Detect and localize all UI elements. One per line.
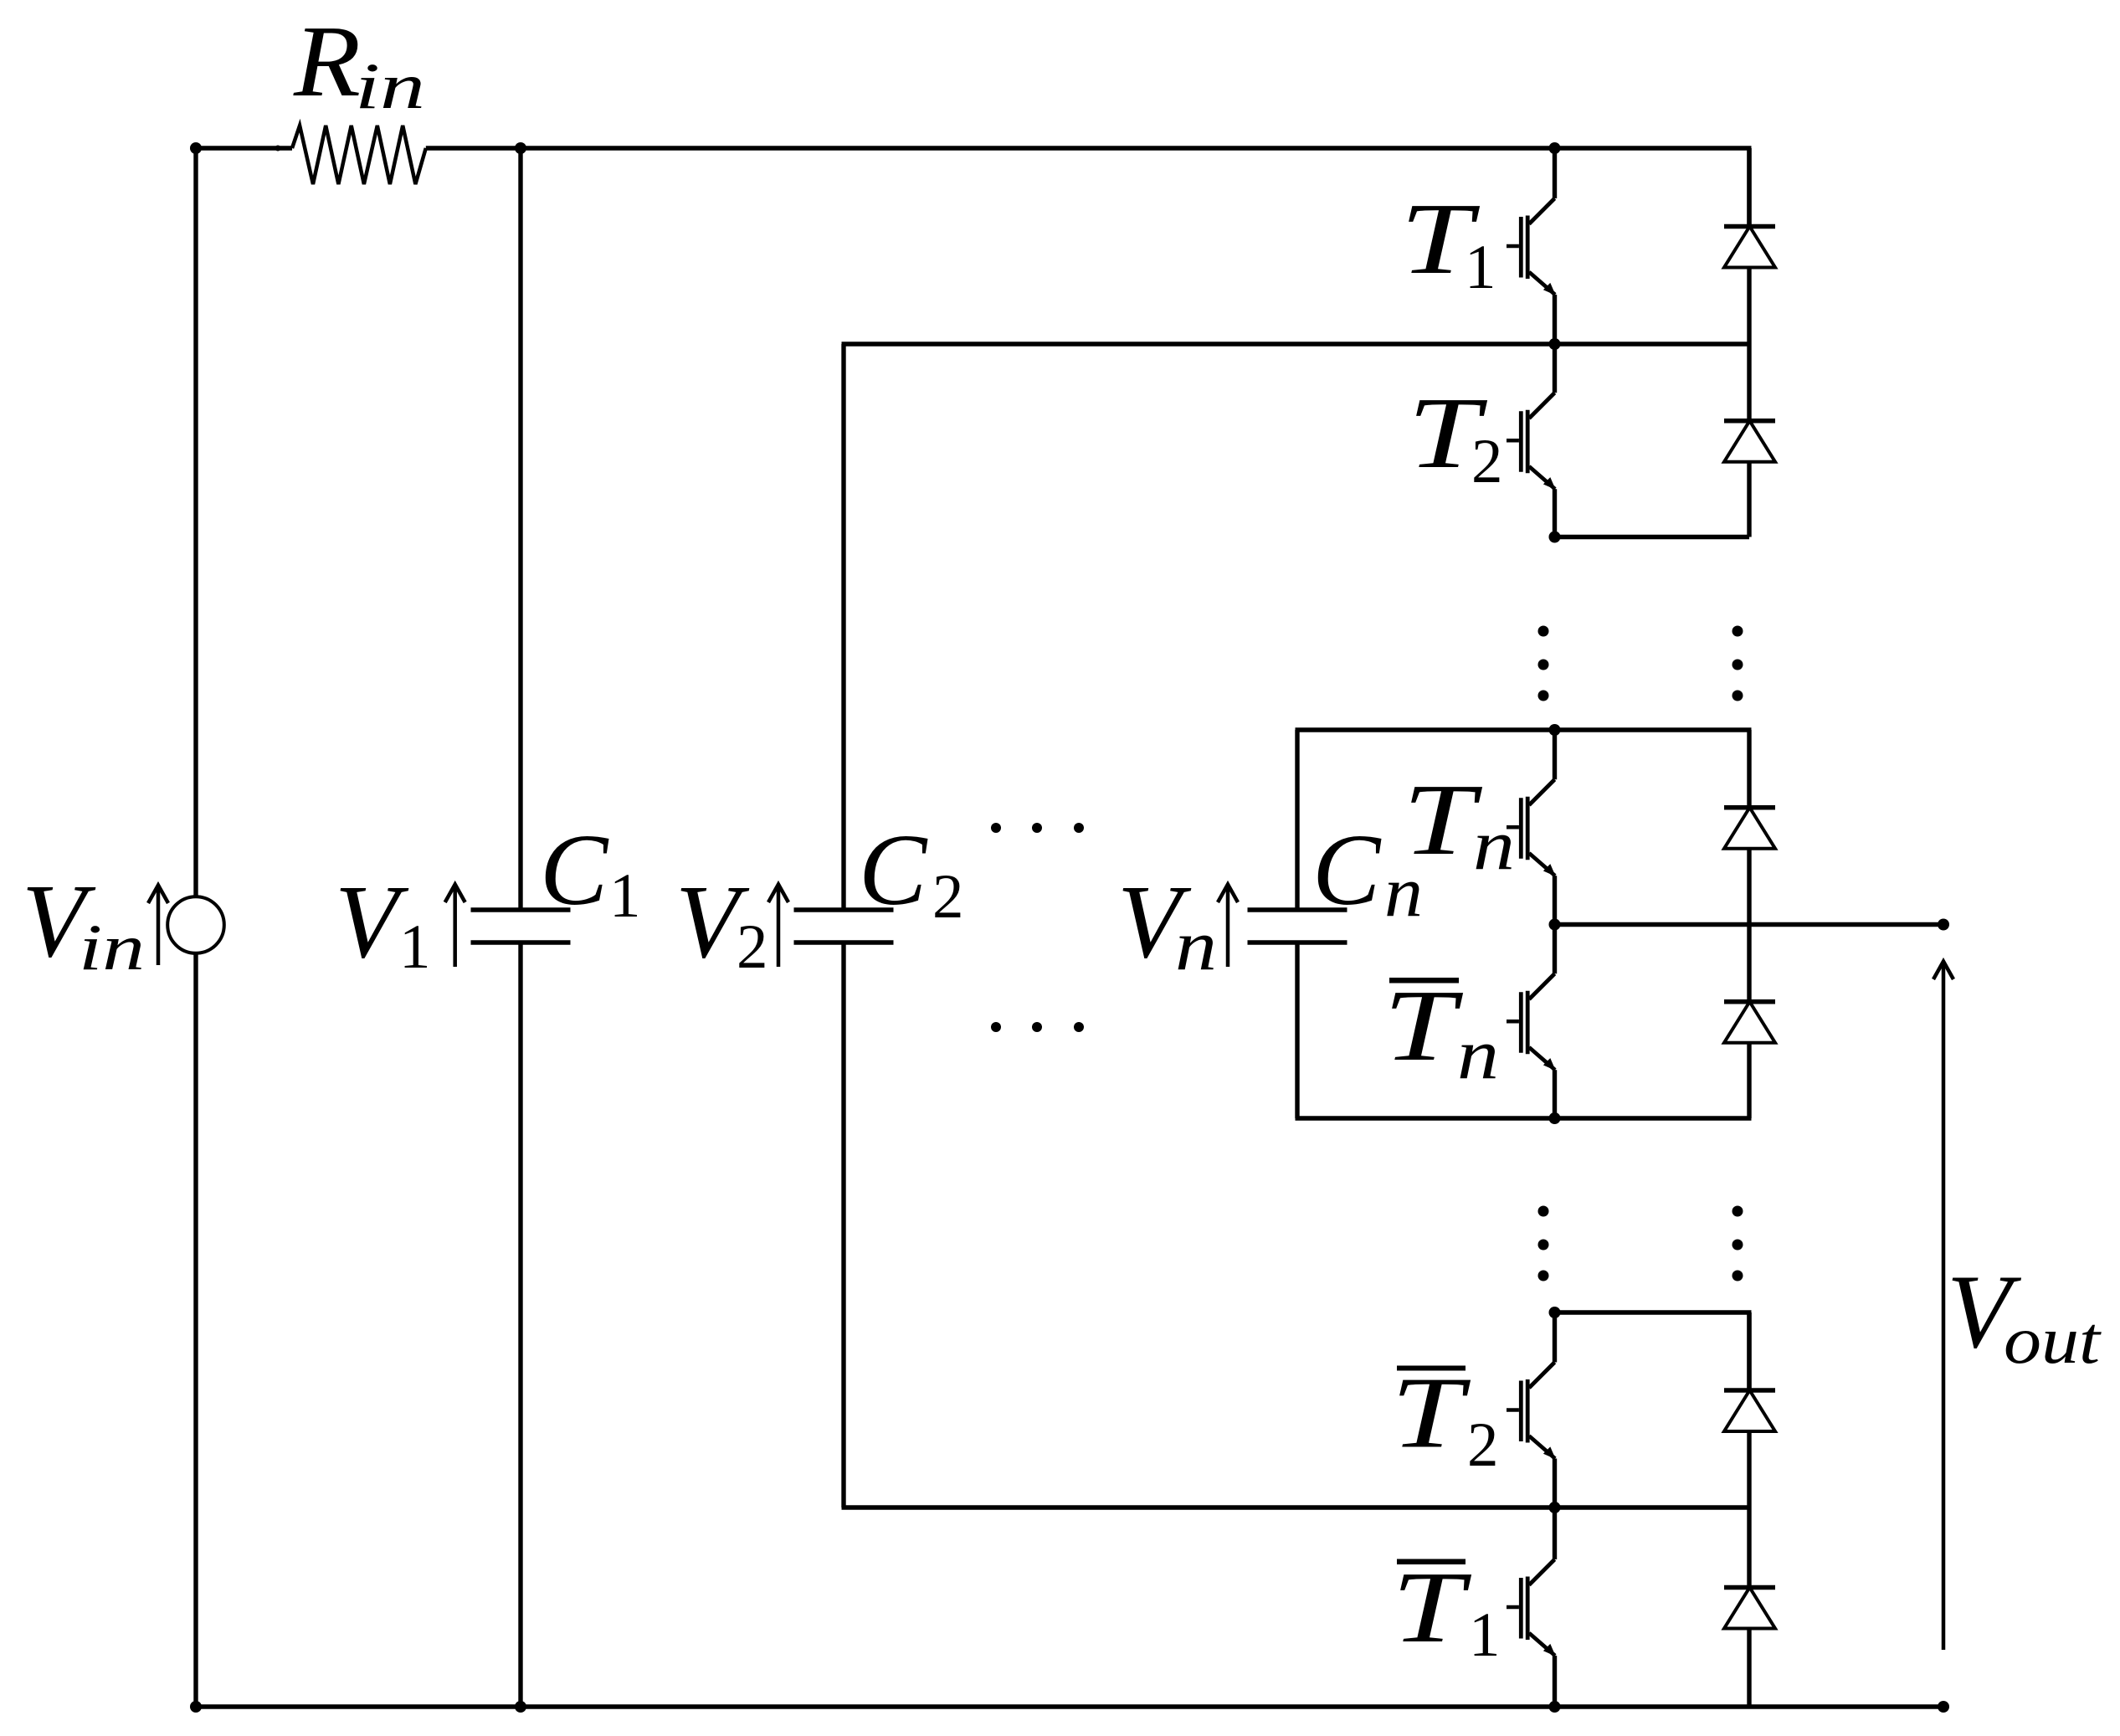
ellipsis cdots upper (C2 to Cn): [991, 823, 1084, 833]
wire Cn cell top rail and Cn top lead: [1296, 730, 1752, 910]
diode D1: [1724, 148, 1775, 344]
label V1: [335, 865, 431, 982]
arrow Vin polarity: [148, 886, 168, 966]
resistor Rin: [292, 126, 426, 184]
svg-text:1: 1: [399, 912, 431, 982]
svg-text:in: in: [355, 49, 425, 122]
capacitor C1: [471, 907, 571, 912]
label Vin: [22, 864, 145, 984]
node dot T2-bar emitter: [1549, 1502, 1561, 1513]
capacitor Cn: [1248, 907, 1347, 912]
label Tn: [1403, 763, 1515, 885]
wire rail C2-bottom to D2-bar anode: [842, 1505, 1750, 1509]
transistor Tn-bar: [1507, 925, 1556, 1119]
label Vn: [1117, 865, 1217, 985]
wire T2-bar collector rail: [1555, 1312, 1752, 1390]
svg-text:n: n: [1457, 1014, 1499, 1094]
diode Dn: [1724, 730, 1775, 925]
svg-text:1: 1: [1465, 233, 1496, 302]
node dot T1 emitter rail: [1549, 338, 1561, 350]
diode D2-bar: [1724, 1312, 1775, 1507]
svg-text:R: R: [293, 5, 361, 118]
label C2: [859, 814, 964, 932]
node dot C1 bottom: [515, 1701, 526, 1713]
transistor T1: [1507, 148, 1556, 344]
wire left column lower (Vin to bottom rail): [193, 954, 198, 1707]
svg-text:T: T: [1403, 763, 1483, 876]
wire top rail (Rin to D1 branch, corner down): [426, 148, 1752, 227]
node dot Tn emitter (output node): [1549, 919, 1561, 931]
transistor T1-bar: [1507, 1507, 1556, 1707]
svg-text:T: T: [1383, 969, 1464, 1082]
label T2: [1408, 377, 1503, 496]
node dot Tn-bar emitter: [1549, 1112, 1561, 1124]
label T1: [1400, 182, 1496, 302]
arrow V2 polarity: [768, 885, 788, 968]
diode D1-bar: [1724, 1507, 1775, 1707]
label Vout: [1947, 1254, 2102, 1378]
wire C1 bottom lead: [518, 942, 522, 1707]
wire top rail left segment (Vin+ to Rin): [196, 146, 292, 150]
node dot bottom-left: [190, 1701, 202, 1713]
svg-text:1: 1: [1469, 1600, 1501, 1670]
node dot top-left: [190, 142, 202, 154]
svg-text:V: V: [335, 865, 409, 980]
transistor T2: [1507, 344, 1556, 537]
node dot T1-bar emitter: [1549, 1701, 1561, 1713]
svg-text:T: T: [1392, 1551, 1472, 1664]
diode D2: [1724, 344, 1775, 537]
wire Cn bottom lead and cell bottom rail: [1296, 942, 1752, 1118]
label V2: [675, 865, 768, 982]
wire C1 top lead: [518, 148, 522, 910]
label T2-bar: [1391, 1357, 1499, 1481]
svg-text:2: 2: [1471, 427, 1503, 496]
node dot T1 collector: [1549, 142, 1561, 154]
ellipsis vdots between T2 cell and Tn cell: [1538, 626, 1743, 701]
wire C2 bottom lead: [841, 942, 845, 1507]
ellipsis cdots lower (C2 to Cn): [991, 1022, 1084, 1032]
svg-text:2: 2: [1467, 1410, 1499, 1480]
junction small dot after Vin on top rail: [275, 146, 281, 152]
svg-text:1: 1: [609, 861, 641, 931]
svg-text:n: n: [1175, 905, 1217, 985]
capacitor C2: [794, 907, 894, 912]
svg-text:2: 2: [932, 862, 964, 932]
label T1-bar: [1392, 1551, 1501, 1670]
arrow Vout: [1933, 962, 1953, 1651]
node dot bottom output terminal: [1938, 1701, 1949, 1713]
label Rin: [293, 5, 425, 122]
node dot output terminal: [1938, 919, 1949, 931]
voltage source Vin: [167, 896, 224, 953]
wire output rail: [1555, 922, 1944, 927]
transistor Tn: [1507, 730, 1556, 925]
transistor T2-bar: [1507, 1312, 1556, 1507]
label Cn: [1312, 814, 1423, 932]
wire rail T2 emitter to D2 anode: [1555, 535, 1750, 539]
wire left column upper (to Vin source): [193, 148, 198, 896]
svg-text:out: out: [2004, 1304, 2102, 1378]
wire bottom rail: [196, 1704, 1943, 1708]
arrow Vn polarity: [1218, 885, 1238, 968]
svg-text:C: C: [1312, 814, 1382, 927]
label Tn-bar: [1383, 969, 1499, 1094]
node dot T2 emitter: [1549, 532, 1561, 543]
svg-text:C: C: [859, 814, 928, 927]
svg-text:2: 2: [737, 912, 768, 982]
diode Dn-bar: [1724, 925, 1775, 1119]
ellipsis vdots between Tn cell and T2-bar cell: [1538, 1206, 1743, 1281]
svg-text:in: in: [79, 911, 145, 984]
arrow V1 polarity: [445, 885, 465, 968]
node dot Tn collector: [1549, 724, 1561, 736]
node dot T2-bar collector: [1549, 1307, 1561, 1318]
wire rail T1-emitter to C2 top lead: [842, 344, 1750, 910]
svg-text:T: T: [1391, 1357, 1471, 1470]
node dot C1 top: [515, 142, 526, 154]
svg-text:n: n: [1473, 804, 1515, 885]
svg-text:C: C: [540, 814, 609, 927]
label C1: [540, 814, 641, 931]
